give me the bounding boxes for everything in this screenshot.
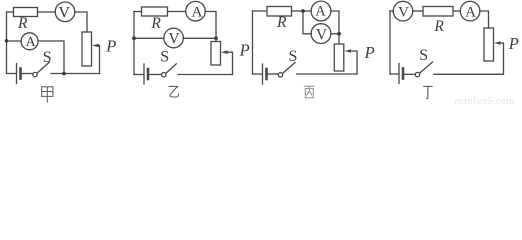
wire: left vertical xyxy=(133,12,135,75)
wire: junction down to rheostat xyxy=(338,34,340,44)
wire: resistor to junction xyxy=(292,10,304,12)
svg-text:R: R xyxy=(150,15,161,32)
resistor R (circuit 3) xyxy=(267,7,292,17)
rheostat P2 wiper arrow wire xyxy=(227,52,233,74)
arrowhead P4 xyxy=(494,41,501,45)
wire: voltmeter right to junction xyxy=(331,33,339,35)
wire: switch to rheostat tail xyxy=(434,73,504,75)
wire: resistor to ammeter xyxy=(453,10,460,12)
battery cell (circuit 4) xyxy=(398,64,400,84)
wire: resistor to voltmeter xyxy=(38,11,56,13)
voltmeter V3 xyxy=(311,24,331,44)
wire: bottom left to battery xyxy=(7,73,17,75)
node: ammeter branch junction xyxy=(5,39,9,43)
svg-text:V: V xyxy=(316,26,328,43)
node: meters right junction xyxy=(337,32,341,36)
svg-text:S: S xyxy=(289,48,298,65)
svg-text:P: P xyxy=(239,41,250,60)
wire: voltmeter branch left xyxy=(134,37,164,39)
wire: top-left to resistor xyxy=(253,10,268,12)
wire: voltmeter to top-right corner, down to rheostat xyxy=(75,12,87,32)
rheostat P4 wiper arrow wire xyxy=(500,43,504,74)
voltmeter V2 xyxy=(164,28,184,48)
ammeter A3 xyxy=(311,1,331,21)
wire: ammeter right, down to bottom xyxy=(38,41,64,74)
rheostat P3 wiper arrow wire xyxy=(351,51,358,74)
wire: ammeter branch from left wire xyxy=(7,40,22,42)
rheostat wiper arrowheads xyxy=(92,41,501,54)
svg-text:A: A xyxy=(465,5,476,21)
label bing (Chinese numeral 3) xyxy=(304,86,315,97)
svg-text:V: V xyxy=(168,31,180,48)
wire: bottom left to battery xyxy=(253,73,263,75)
wire: switch to rheostat tail xyxy=(178,74,233,76)
rheostat P1 body xyxy=(82,32,92,66)
resistor R (circuit 2) xyxy=(142,7,168,16)
svg-text:A: A xyxy=(192,5,203,21)
svg-text:R: R xyxy=(17,15,28,32)
svg-text:manfen5.com: manfen5.com xyxy=(455,96,515,105)
label yi (Chinese numeral 2) xyxy=(169,86,179,97)
svg-text:R: R xyxy=(433,18,444,35)
wire: ammeter to top-right corner, down xyxy=(205,12,216,39)
voltmeter V4 xyxy=(393,1,413,21)
wire: switch to rheostat tail xyxy=(297,73,358,75)
node: voltmeter branch right junction xyxy=(214,36,218,40)
wire: battery to switch xyxy=(149,74,161,76)
wire: junction down to voltmeter branch xyxy=(303,11,311,34)
svg-text:V: V xyxy=(398,5,409,21)
rheostat P1 wiper arrow wire xyxy=(98,46,100,74)
arrowhead P3 xyxy=(344,49,351,53)
wire: junction to ammeter xyxy=(303,10,311,12)
resistor R (circuit 4) xyxy=(423,7,453,17)
rheostat P2 body xyxy=(211,42,221,66)
svg-text:A: A xyxy=(26,35,37,50)
label jia (Chinese numeral 1) xyxy=(42,87,53,103)
ammeter A1 xyxy=(21,33,38,50)
wire: bottom left to battery xyxy=(134,74,144,76)
svg-text:S: S xyxy=(419,47,428,64)
svg-text:P: P xyxy=(364,43,375,62)
wire: battery to switch xyxy=(404,73,415,75)
svg-text:S: S xyxy=(160,49,169,66)
node: bottom wire junction xyxy=(62,72,66,76)
wire: ammeter right, corner down xyxy=(331,11,339,34)
node: top junction after resistor xyxy=(301,9,305,13)
wire: top-left to voltmeter xyxy=(390,10,393,12)
wire: voltmeter to resistor xyxy=(413,10,423,12)
arrowhead P1 xyxy=(92,44,99,48)
switch S3 xyxy=(278,73,282,77)
switch S1 xyxy=(33,72,37,76)
rheostat P3 body xyxy=(334,44,344,71)
wire: switch to junction and to rheostat tail xyxy=(51,73,100,75)
ammeter A4 xyxy=(460,1,480,21)
wire: left vertical xyxy=(389,11,391,74)
svg-text:A: A xyxy=(315,4,326,20)
wire: left vertical xyxy=(6,12,8,74)
battery cell (circuit 2) xyxy=(143,64,145,84)
battery cell (circuit 3) xyxy=(262,64,264,84)
wire: ammeter to corner, down to rheostat xyxy=(480,11,489,28)
svg-text:P: P xyxy=(105,36,116,55)
svg-text:S: S xyxy=(43,49,52,66)
wire: junction down to rheostat xyxy=(215,38,217,41)
wire: top-left to resistor xyxy=(7,11,14,13)
rheostat P4 body xyxy=(484,28,494,61)
wire: voltmeter right to right wire xyxy=(183,37,216,39)
switch S2 xyxy=(162,73,166,77)
svg-text:V: V xyxy=(58,4,70,21)
label ding (Chinese numeral 4) xyxy=(423,86,432,98)
node: voltmeter branch left junction xyxy=(132,36,136,40)
resistor R (circuit 1) xyxy=(14,8,38,17)
arrowhead P2 xyxy=(221,50,228,54)
wire: battery to switch xyxy=(22,73,33,75)
svg-text:R: R xyxy=(276,14,287,31)
wire: resistor to ammeter xyxy=(168,11,186,13)
switch S4 xyxy=(415,72,419,76)
wire: bottom left to battery xyxy=(390,73,399,75)
battery cell (circuit 1) xyxy=(16,64,18,84)
wire: battery to switch xyxy=(268,73,278,75)
wire: left vertical xyxy=(252,11,254,74)
wire: top-left to resistor xyxy=(134,11,142,13)
voltmeter V1 xyxy=(55,2,75,22)
svg-text:P: P xyxy=(508,34,519,53)
ammeter A2 xyxy=(186,1,206,21)
